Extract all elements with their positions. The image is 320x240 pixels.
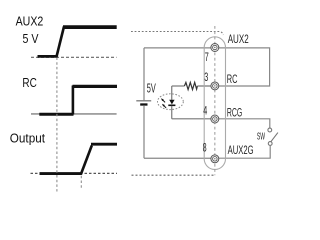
wire: LED branch vertical upper: [171, 86, 173, 100]
Output waveform low segment: [40, 172, 82, 175]
pin 3: [211, 82, 219, 90]
wire: battery loop bottom (to pin 8): [144, 157, 215, 159]
AUX2 waveform dashed baseline: [31, 56, 117, 58]
wire: LED branch vertical lower: [171, 106, 173, 119]
Output waveform dashed baseline: [31, 172, 118, 174]
RC waveform high segment: [73, 85, 118, 88]
AUX2 waveform rising edge: [56, 27, 64, 58]
svg-text:AUX2G: AUX2G: [228, 145, 254, 157]
svg-text:AUX2: AUX2: [228, 34, 249, 46]
svg-text:RCG: RCG: [227, 107, 242, 119]
pin 7: [211, 44, 219, 52]
svg-text:SW: SW: [257, 132, 265, 143]
svg-text:RC: RC: [22, 76, 36, 90]
wire: AUX2-RC loop right side: [218, 48, 270, 86]
connector centerline dashed: [214, 26, 216, 175]
svg-text:Output: Output: [10, 131, 46, 146]
wire: battery loop left vertical lower: [143, 105, 145, 158]
wire: battery loop top (to pin 7): [144, 47, 215, 49]
RC waveform low segment: [39, 113, 73, 116]
svg-text:RC: RC: [227, 74, 238, 86]
device boundary bottom dashed line: [132, 174, 214, 176]
switch SW top terminal: [268, 128, 272, 132]
AUX2 waveform high segment: [63, 25, 117, 29]
LED D1 emission arrow 1: [163, 100, 166, 103]
switch SW bottom terminal: [268, 142, 272, 146]
pin 8: [211, 155, 219, 163]
Output waveform high segment: [91, 143, 117, 146]
pin 4: [211, 115, 219, 123]
RC waveform solid baseline: [31, 113, 117, 115]
resistor R1 zigzag: [184, 82, 197, 89]
LED D1 emission arrow 2: [164, 105, 167, 108]
svg-text:8: 8: [203, 142, 207, 154]
svg-text:AUX2: AUX2: [16, 14, 44, 28]
connector J1 stadium outline: [204, 37, 225, 170]
device boundary top dashed line: [131, 32, 223, 36]
svg-text:4: 4: [203, 106, 207, 118]
wire: switch to AUX2G wire: [218, 145, 270, 158]
battery BT1 short plate: [140, 103, 147, 105]
svg-text:7: 7: [205, 52, 209, 64]
battery BT1 long plate: [136, 100, 151, 102]
RC waveform rising edge: [72, 86, 75, 115]
wire: LED branch bottom to pin 4: [172, 118, 215, 120]
wire: resistor to pin 3: [197, 85, 215, 87]
svg-text:3: 3: [204, 72, 208, 84]
wire: resistor stub from node: [172, 85, 185, 87]
switch SW lever: [271, 133, 278, 142]
svg-text:5V: 5V: [147, 81, 156, 96]
LED D1 triangle: [169, 100, 174, 105]
Output waveform rising edge: [81, 146, 92, 175]
timing dashed vertical cursor 2: [80, 176, 82, 189]
svg-text:5 V: 5 V: [23, 32, 40, 46]
wire: RCG wire to switch: [218, 119, 270, 128]
optocoupler dashed ellipse: [158, 94, 184, 110]
LED D1 cathode bar: [168, 104, 175, 106]
wire: battery loop left vertical upper: [143, 48, 145, 100]
timing dashed vertical cursor 1: [56, 58, 58, 192]
AUX2 waveform low segment: [38, 55, 58, 58]
